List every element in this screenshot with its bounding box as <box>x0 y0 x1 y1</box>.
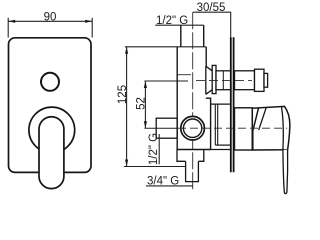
handle body <box>252 106 290 150</box>
left inlet pipe <box>156 118 177 138</box>
svg-text:90: 90 <box>44 11 57 23</box>
svg-text:52: 52 <box>136 97 148 110</box>
lever handle (front) <box>39 117 64 189</box>
dimension 90 line <box>8 20 92 22</box>
dimension 52 line <box>144 81 146 128</box>
dimension 90 arrow left <box>8 20 15 23</box>
dimension 90 extension line left <box>7 18 9 38</box>
diverter button <box>41 73 59 91</box>
stop valve end ring <box>255 69 265 91</box>
handle lever arm edge <box>259 107 267 130</box>
lever blade <box>283 150 288 194</box>
handle escutcheon circle <box>29 107 75 153</box>
dimension 52 arrow bottom <box>144 121 147 128</box>
stop valve axis centerline <box>196 79 252 81</box>
dimension 125 arrow top <box>125 47 128 54</box>
sleeve lower line <box>211 149 231 151</box>
body bottom edge <box>177 149 210 151</box>
dimension 90 arrow right <box>85 20 92 23</box>
dimension 52 arrow top <box>144 81 147 88</box>
stop valve collar <box>212 65 216 93</box>
label 3/4 G underline <box>146 185 193 187</box>
cartridge outer circle <box>181 116 205 140</box>
body internal joint <box>177 74 191 76</box>
cartridge axis centerline dashed <box>178 127 287 129</box>
wall plate edge-on (double thick line) <box>230 37 232 172</box>
handle arm lower edge <box>253 108 259 150</box>
bottom outlet pipe <box>186 161 199 181</box>
top outlet pipe <box>180 25 182 47</box>
stop valve cylinder right of plate <box>235 71 255 90</box>
bottom outlet flange <box>177 150 204 162</box>
svg-text:125: 125 <box>117 85 129 104</box>
body left edge <box>176 47 178 150</box>
valve body upper block <box>205 47 207 66</box>
escutcheon sleeve top <box>211 103 231 105</box>
escutcheon sleeve bottom <box>215 144 230 146</box>
cartridge inner circle <box>183 119 201 137</box>
stop valve cylinder left of plate <box>216 71 231 90</box>
dimension 125 extension bottom <box>124 166 186 168</box>
svg-text:1/2" G: 1/2" G <box>148 133 160 165</box>
label 1/2 G side underline <box>158 134 160 164</box>
dimension 90 extension line right <box>91 18 93 38</box>
vertical centerline <box>192 12 194 190</box>
escutcheon sleeve walls <box>214 104 216 145</box>
handle hub <box>235 108 253 150</box>
dimension 125 arrow bottom <box>125 160 128 167</box>
label 30/55 leader line <box>193 12 231 37</box>
label 1/2 G top underline / pipe top edge <box>155 24 204 26</box>
stop valve cylinder joint <box>222 71 224 90</box>
dimension 52 extension top / valve axis <box>144 80 188 82</box>
body right edge <box>206 98 211 149</box>
stop valve end nub <box>264 73 268 87</box>
cartridge axis centerline solid left <box>144 127 177 129</box>
dimension 125 line <box>126 47 128 167</box>
dimension 125 extension top / body shoulder <box>125 46 206 48</box>
handle inner arc <box>282 107 284 150</box>
wall plate (front) <box>9 38 92 173</box>
stop valve cone <box>206 66 212 94</box>
